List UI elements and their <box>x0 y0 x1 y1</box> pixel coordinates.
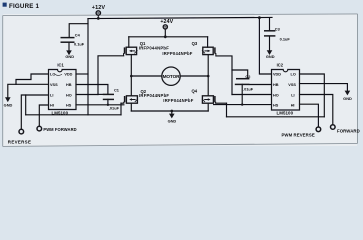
svg-text:LO: LO <box>291 73 296 77</box>
wire Q4 gate riser <box>226 103 228 117</box>
junction motor right node <box>207 75 210 78</box>
svg-text:.01uF: .01uF <box>109 105 120 110</box>
IC2 LM5100 gate driver <box>272 63 300 116</box>
svg-text:HB: HB <box>273 83 279 87</box>
wire Q3 gate feed <box>216 56 232 95</box>
svg-text:Q4: Q4 <box>192 88 198 93</box>
wire Q4 source <box>207 103 209 111</box>
wire Q2 source <box>130 103 132 111</box>
figure title bullet <box>3 3 7 7</box>
junction +24V bridge tap <box>164 35 167 38</box>
wire IC1 HO pin <box>76 94 98 96</box>
wire +24V lead <box>164 29 166 37</box>
IC1 LM5100 gate driver <box>49 63 77 116</box>
wire IC1 HI to pwm forward <box>39 105 48 126</box>
svg-text:GND: GND <box>343 96 352 101</box>
svg-text:C4: C4 <box>75 32 81 37</box>
wire IC1 LO staircase to gnd <box>16 74 49 84</box>
svg-text:C3: C3 <box>275 27 281 32</box>
ground right (IC2) <box>343 91 352 101</box>
capacitor C3 <box>264 27 290 42</box>
svg-text:IC2: IC2 <box>277 63 284 68</box>
svg-text:GND: GND <box>168 119 177 124</box>
svg-text:VDD: VDD <box>273 73 281 77</box>
svg-text:0.1uF: 0.1uF <box>74 42 85 47</box>
svg-text:Q3: Q3 <box>192 41 198 46</box>
supply +12V <box>92 5 106 18</box>
wire Q1 drain <box>128 37 130 47</box>
wire C1 top tie <box>98 93 103 95</box>
svg-text:GND: GND <box>4 103 13 108</box>
wire Q2 gate <box>121 102 124 104</box>
svg-text:LI: LI <box>50 94 53 98</box>
capacitor C1 <box>103 88 120 111</box>
wire IC2 HI to pwm reverse <box>300 104 319 127</box>
ground left (IC1) <box>4 97 13 107</box>
wire Q1 gate feed <box>98 56 124 95</box>
svg-text:LM5100: LM5100 <box>51 111 68 116</box>
wire under IC2 <box>227 116 325 118</box>
wire VDD drop IC1 <box>87 24 89 115</box>
connector REVERSE <box>8 129 31 144</box>
wire +12V rail <box>88 17 272 18</box>
connector PWM FORWARD <box>37 126 77 132</box>
transistor Q2 <box>124 96 138 103</box>
junction +12V rail tap <box>97 17 100 20</box>
transistor Q1 <box>124 47 138 56</box>
transistor Q4 <box>202 96 216 103</box>
wire IC1 VSS pin <box>8 84 49 97</box>
wire C2 top tie <box>232 70 248 79</box>
wire IC1 HS pin <box>76 104 124 106</box>
svg-text:MOTOR: MOTOR <box>163 74 181 79</box>
page background <box>0 0 363 150</box>
svg-text:HI: HI <box>291 104 295 108</box>
wire bridge bottom rail <box>131 110 208 112</box>
svg-text:HO: HO <box>273 94 279 98</box>
svg-text:REVERSE: REVERSE <box>8 140 31 145</box>
wire IC2 VSS to gnd <box>300 84 348 91</box>
svg-text:HS: HS <box>273 104 279 108</box>
wire under IC1 <box>26 114 121 116</box>
svg-text:HS: HS <box>66 104 72 108</box>
junction C1 to HS <box>107 104 109 106</box>
wire motor left <box>131 75 162 77</box>
wire IC2 LI to forward <box>300 95 333 125</box>
wire IC1 HB pin to C1 <box>76 85 108 95</box>
ground below C4 <box>65 50 74 59</box>
wire C1 bottom lead <box>107 99 109 104</box>
svg-text:VSS: VSS <box>50 83 58 87</box>
svg-text:+24V: +24V <box>160 19 173 25</box>
svg-text:C1: C1 <box>114 88 120 93</box>
junction IC2 VDD rail tap <box>258 16 261 19</box>
supply +24V <box>160 19 173 29</box>
connector PWM REVERSE <box>281 127 320 138</box>
junction bridge ground tap <box>170 110 173 113</box>
svg-text:+12V: +12V <box>92 5 106 11</box>
wire IC2 HB pin to C2 <box>249 84 271 86</box>
wire IC1 LI to reverse <box>26 95 49 115</box>
svg-text:PWM FORWARD: PWM FORWARD <box>43 127 76 132</box>
junction motor left node <box>130 75 133 78</box>
wire center gnd lead <box>171 111 173 114</box>
wire Q2 gate riser <box>120 103 122 115</box>
wire IC2 HO pin <box>232 94 272 96</box>
wire Q4 gate <box>216 102 227 104</box>
wire motor right <box>180 75 208 77</box>
svg-text:C2: C2 <box>245 74 251 79</box>
wire C3 drop <box>269 18 271 31</box>
svg-text:IC1: IC1 <box>57 63 64 68</box>
svg-text:HO: HO <box>66 94 72 98</box>
svg-text:HB: HB <box>66 83 72 87</box>
junction C2 to HS <box>241 103 243 105</box>
wire bridge top rail <box>129 36 208 38</box>
transistor Q3 <box>202 47 216 56</box>
wire staircase to C4 <box>69 19 88 37</box>
svg-text:LI: LI <box>291 94 294 98</box>
wire IC2 VDD pin <box>259 18 271 74</box>
svg-text:PWM REVERSE: PWM REVERSE <box>281 133 314 138</box>
capacitor C2 <box>235 74 254 92</box>
svg-text:IRFP044NPbF: IRFP044NPbF <box>163 98 193 103</box>
schematic interior background <box>3 14 357 146</box>
wire IC2 LO wrap <box>300 74 325 117</box>
wire switch node right <box>207 55 209 96</box>
wire IC2 HS pin <box>214 104 272 106</box>
svg-text:IRFP044NPbF: IRFP044NPbF <box>162 51 192 56</box>
svg-text:VDD: VDD <box>64 73 72 77</box>
svg-text:HI: HI <box>50 104 54 108</box>
svg-text:FIGURE 1: FIGURE 1 <box>9 3 39 10</box>
wire Q3 drain <box>207 37 209 47</box>
wire switch node left <box>130 55 132 96</box>
svg-text:.01uF: .01uF <box>243 86 254 91</box>
svg-text:GND: GND <box>266 54 275 59</box>
svg-text:LM5100: LM5100 <box>276 111 293 116</box>
wire C4 bottom lead <box>68 43 70 51</box>
frame border <box>3 14 358 147</box>
connector FORWARD <box>331 125 360 134</box>
capacitor C4 <box>61 32 85 46</box>
svg-text:FORWARD: FORWARD <box>337 128 360 133</box>
wire IC1 VDD pin <box>76 73 88 75</box>
wire reverse drop <box>21 95 25 129</box>
wire C2 bottom lead <box>241 84 243 104</box>
svg-text:GND: GND <box>65 54 74 59</box>
svg-text:LO: LO <box>50 73 55 77</box>
motor MOTOR <box>162 67 180 85</box>
svg-text:0.1uF: 0.1uF <box>280 37 291 42</box>
ground below bridge <box>168 114 177 124</box>
svg-text:VSS: VSS <box>288 83 296 87</box>
wire C3 bottom lead <box>269 36 271 50</box>
ground below C3 <box>266 50 275 59</box>
